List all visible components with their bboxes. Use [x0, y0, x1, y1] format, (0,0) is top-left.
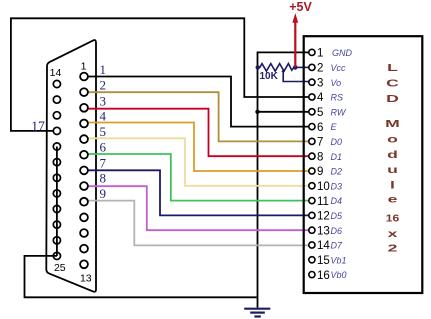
svg-text:2: 2: [317, 63, 323, 75]
svg-text:13: 13: [317, 225, 330, 237]
svg-text:L: L: [387, 63, 398, 74]
DB25 pin 25: [53, 252, 60, 259]
LCD pin 16: [309, 272, 315, 278]
DB25 pin 14: [53, 80, 60, 87]
DB25 pin 16: [53, 112, 60, 119]
svg-text:2: 2: [100, 78, 107, 93]
DB25 connector body J1: [46, 40, 96, 292]
LCD pin 6: [309, 124, 315, 130]
svg-text:u: u: [387, 165, 398, 176]
svg-text:D5: D5: [331, 211, 343, 221]
wire DB25 pin9 to LCD D7: [88, 201, 309, 246]
svg-text:C: C: [386, 78, 399, 89]
LCD module body U1: [304, 36, 423, 293]
wire DB25 pin1 to LCD E: [88, 77, 309, 127]
DB25 pin 11: [80, 229, 88, 237]
junction dot RW/ground: [255, 110, 259, 114]
LCD pin 9: [309, 168, 315, 174]
svg-text:6: 6: [317, 122, 323, 134]
LCD pin circles 1-16: [309, 49, 315, 277]
svg-text:+5V: +5V: [289, 0, 312, 14]
DB25 pin 18: [53, 143, 60, 150]
ground bus wire (LCD GND / RW to ground): [258, 52, 309, 307]
svg-text:GND: GND: [332, 48, 353, 58]
svg-text:Vo: Vo: [331, 78, 342, 88]
svg-text:D0: D0: [331, 137, 343, 147]
svg-text:3: 3: [100, 94, 107, 109]
svg-text:D7: D7: [331, 241, 343, 251]
wire DB25 pin25 to ground bus: [25, 256, 257, 297]
LCD pin 10: [309, 183, 315, 189]
svg-text:1: 1: [317, 48, 323, 60]
svg-text:16: 16: [317, 270, 330, 282]
DB25 pin 19: [53, 159, 60, 166]
svg-text:1: 1: [100, 62, 107, 77]
svg-text:Vb0: Vb0: [331, 270, 347, 280]
LCD pin 11: [309, 198, 315, 204]
wire DB25 pin5 to LCD D3: [88, 138, 309, 186]
wire pot right to LCD Vcc: [295, 66, 308, 68]
svg-text:3: 3: [317, 77, 323, 89]
DB25 pin 3: [80, 104, 88, 112]
potentiometer wiper to LCD Vo: [283, 70, 309, 82]
svg-text:e: e: [388, 194, 398, 205]
svg-text:6: 6: [100, 140, 107, 155]
DB25 pin 17: [53, 127, 60, 134]
svg-text:o: o: [387, 134, 398, 145]
DB25 pin 22: [53, 205, 60, 212]
DB25 pin 21: [53, 190, 60, 197]
DB25 pin 7: [80, 167, 88, 175]
svg-text:17: 17: [31, 118, 45, 133]
LCD pin numbers: [317, 48, 330, 282]
svg-text:RS: RS: [331, 93, 344, 103]
LCD pin 5: [309, 109, 315, 115]
DB25 pin 15: [53, 96, 60, 103]
DB25 pin 24: [53, 237, 60, 244]
svg-text:14: 14: [317, 240, 330, 252]
svg-text:14: 14: [50, 67, 62, 79]
LCD pin 8: [309, 153, 315, 159]
svg-text:M: M: [385, 119, 400, 130]
wire DB25 pin6 to LCD D4: [88, 154, 309, 201]
DB25 pin 13: [80, 260, 88, 268]
junction dot pot right / +5V / Vcc: [293, 65, 298, 70]
svg-text:D1: D1: [331, 152, 343, 162]
svg-text:8: 8: [317, 151, 323, 163]
wire DB25 pin7 to LCD D5: [88, 170, 309, 215]
svg-text:4: 4: [100, 109, 107, 124]
wire branch to LCD RW: [258, 111, 309, 113]
DB25 pin 9: [80, 198, 88, 206]
LCD pin 7: [309, 138, 315, 144]
DB25 pin 6: [80, 151, 88, 159]
svg-text:D6: D6: [331, 226, 343, 236]
svg-text:9: 9: [317, 166, 323, 178]
wire DB25 pin2 to LCD D0: [88, 92, 309, 141]
DB25 ground chain pins 18-25: [56, 147, 58, 256]
svg-text:Vb1: Vb1: [331, 255, 347, 265]
junction dot pot left on ground bus: [256, 65, 260, 69]
svg-text:13: 13: [80, 273, 92, 285]
DB25 pin 12: [80, 245, 88, 253]
svg-text:7: 7: [317, 137, 323, 149]
svg-text:7: 7: [100, 156, 107, 171]
LCD pin 12: [309, 212, 315, 218]
svg-text:16: 16: [386, 213, 399, 224]
svg-text:25: 25: [54, 262, 66, 274]
LCD pin 2: [309, 64, 315, 70]
wire DB25 pin8 to LCD D6: [88, 186, 309, 230]
LCD pin 13: [309, 227, 315, 233]
svg-text:10: 10: [317, 181, 330, 193]
DB25 pin 20: [53, 174, 60, 181]
DB25 pin 10: [80, 213, 88, 221]
LCD pin 3: [309, 79, 315, 85]
svg-text:RW: RW: [331, 107, 347, 117]
wire DB25 pin4 to LCD D2: [88, 123, 309, 172]
DB25 pin 5: [80, 135, 88, 143]
wire DB25 pin17 to LCD RS: [11, 18, 309, 131]
LCD pin 15: [309, 257, 315, 263]
svg-text:1: 1: [81, 61, 87, 73]
LCD title vertical text: [385, 63, 400, 255]
svg-text:8: 8: [100, 171, 107, 186]
svg-text:15: 15: [317, 255, 330, 267]
wire DB25 pin3 to LCD D1: [88, 109, 309, 157]
svg-text:Vcc: Vcc: [331, 63, 347, 73]
DB25 pin 8: [80, 182, 88, 190]
svg-text:4: 4: [317, 92, 324, 104]
svg-text:11: 11: [317, 196, 329, 208]
LCD pin 14: [309, 242, 315, 248]
svg-text:l: l: [390, 180, 395, 191]
potentiometer R1 10K body: [258, 64, 296, 72]
svg-text:2: 2: [388, 243, 398, 254]
DB25 pin 23: [53, 221, 60, 228]
DB25 pin 1: [80, 73, 88, 81]
svg-text:12: 12: [317, 211, 330, 223]
LCD pin 4: [309, 94, 315, 100]
+5V arrowhead: [292, 13, 298, 23]
wiper arrowhead: [282, 68, 285, 72]
svg-text:D: D: [386, 94, 399, 105]
DB25 pin 4: [80, 120, 88, 128]
svg-text:10K: 10K: [260, 71, 279, 82]
LCD pin 1: [309, 49, 315, 55]
svg-text:E: E: [331, 122, 338, 132]
ground symbol: [244, 309, 270, 317]
svg-text:9: 9: [100, 186, 107, 201]
LCD pin name labels: [331, 48, 353, 280]
DB25 pin 2: [80, 88, 88, 96]
svg-text:5: 5: [317, 107, 323, 119]
svg-text:D4: D4: [331, 196, 343, 206]
svg-text:D2: D2: [331, 167, 343, 177]
svg-text:D3: D3: [331, 181, 343, 191]
svg-text:5: 5: [100, 124, 107, 139]
svg-text:x: x: [388, 229, 398, 240]
svg-text:d: d: [387, 150, 398, 161]
+5V supply line: [294, 21, 296, 67]
